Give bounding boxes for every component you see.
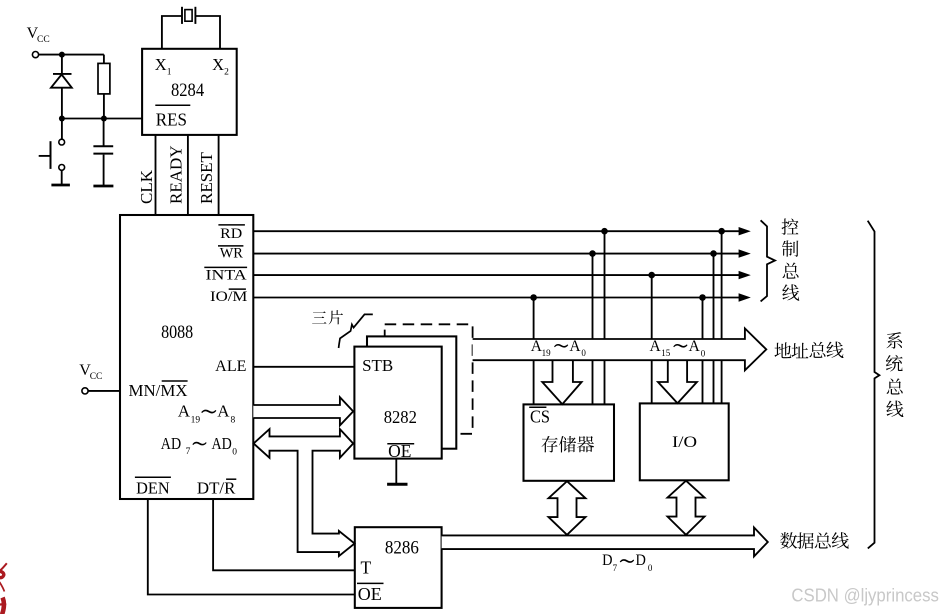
wire RD drop to I/O xyxy=(721,231,723,403)
pin label OE 8282 (overline) xyxy=(387,441,414,461)
wire RD drop to memory xyxy=(604,231,606,404)
pin label INTA (overline) xyxy=(204,267,247,283)
svg-text:ALE: ALE xyxy=(215,358,246,375)
wire WR drop to I/O xyxy=(713,254,715,404)
svg-text:X: X xyxy=(155,55,167,74)
bus arrow AD7-AD0 (8088/8282/8286) xyxy=(254,429,355,556)
bus arrow io-data (double) xyxy=(668,481,705,535)
svg-text:CC: CC xyxy=(37,35,50,45)
svg-text:READY: READY xyxy=(167,145,186,204)
clock generator U2 8284 xyxy=(142,49,237,135)
svg-text:MN/MX: MN/MX xyxy=(129,381,188,400)
node VCC terminal (reset circuit) xyxy=(32,52,38,58)
svg-text:T: T xyxy=(361,558,372,578)
svg-text:8088: 8088 xyxy=(161,323,193,343)
svg-text:WR: WR xyxy=(220,246,243,262)
wire RD line xyxy=(253,230,740,232)
pin label WR (overline) xyxy=(218,246,243,262)
memory block xyxy=(524,404,615,480)
svg-text:D: D xyxy=(636,552,646,569)
node junction IOM-I/O xyxy=(699,294,706,301)
ground (capacitor) xyxy=(93,185,113,188)
wire WR drop to memory xyxy=(592,254,594,405)
svg-text:0: 0 xyxy=(581,348,586,358)
wire crystal left xyxy=(162,16,182,49)
wire DEN to 8286 OE xyxy=(148,499,355,595)
svg-text:2: 2 xyxy=(224,67,229,77)
arrowhead INTA xyxy=(739,271,751,279)
wire crystal right xyxy=(195,16,220,49)
label memory 存储器 xyxy=(542,436,595,453)
label VCC (MN/MX) xyxy=(79,362,102,382)
crystal Y1 xyxy=(182,7,195,24)
node junction INTA-I/O xyxy=(648,272,655,279)
node junction at diode top xyxy=(59,52,65,58)
label VCC (reset) xyxy=(27,25,50,45)
svg-text:AD: AD xyxy=(161,434,181,453)
svg-text:RD: RD xyxy=(220,226,242,242)
arrowhead RD xyxy=(739,227,751,235)
cpu U1 8088 xyxy=(120,215,253,499)
bus arrow address-to-memory xyxy=(542,360,581,404)
svg-text:19: 19 xyxy=(542,348,552,358)
svg-text:RES: RES xyxy=(156,110,187,130)
svg-text:0: 0 xyxy=(232,447,237,457)
wire pin READY 8284-8088 xyxy=(187,135,189,215)
wire INTA line xyxy=(253,274,740,276)
wire IOM drop to I/O xyxy=(702,298,704,404)
pin label IO/M (overline on M) xyxy=(210,289,247,305)
node junction reset-left xyxy=(59,116,65,122)
wire reset node to 8284 RES xyxy=(62,118,142,120)
svg-text:AD: AD xyxy=(212,434,232,453)
latch U3 8282 xyxy=(354,347,441,459)
wire WR line xyxy=(253,253,740,255)
arrowhead WR xyxy=(739,249,751,257)
svg-text:DEN: DEN xyxy=(136,479,170,498)
svg-text:7: 7 xyxy=(186,447,191,457)
label A19-A0 xyxy=(531,338,587,358)
svg-text:D: D xyxy=(602,552,612,569)
address bus (hollow arrow) xyxy=(473,328,767,370)
wire ALE to STB xyxy=(253,366,354,368)
svg-text:CC: CC xyxy=(90,372,103,382)
resistor R1 xyxy=(98,63,110,94)
label A15-A0 xyxy=(650,338,706,358)
svg-text:IO/M: IO/M xyxy=(210,289,247,305)
svg-text:A: A xyxy=(217,402,230,421)
svg-text:STB: STB xyxy=(362,356,393,375)
svg-text:8: 8 xyxy=(231,415,236,425)
wire button to ground xyxy=(61,170,63,184)
svg-text:CSDN @ljyprincess: CSDN @ljyprincess xyxy=(791,586,939,606)
svg-text:8284: 8284 xyxy=(171,81,204,101)
label address bus 地址总线 xyxy=(774,342,843,359)
pin label DEN (overline) xyxy=(135,477,171,497)
pin label AD7-AD0 xyxy=(161,434,238,458)
wire diode anode xyxy=(61,55,63,74)
wire VCC to MN/MX pin xyxy=(88,390,120,392)
wire capacitor to ground xyxy=(103,155,105,186)
svg-text:A: A xyxy=(178,402,191,421)
svg-text:A: A xyxy=(569,338,581,355)
wire to push-button xyxy=(61,119,63,140)
svg-text:0: 0 xyxy=(648,563,653,573)
svg-text:CLK: CLK xyxy=(137,169,156,204)
svg-text:INTA: INTA xyxy=(206,267,247,283)
brace system bus xyxy=(868,221,880,549)
svg-text:A: A xyxy=(650,338,662,355)
label control bus 控制总线 xyxy=(782,218,800,300)
node junction RD-memory xyxy=(601,228,608,235)
svg-text:8282: 8282 xyxy=(384,407,417,427)
svg-text:8286: 8286 xyxy=(385,538,419,558)
label 三片 xyxy=(312,310,343,324)
svg-text:DT/R: DT/R xyxy=(197,479,236,498)
arrowhead IO/M xyxy=(739,293,751,301)
data bus (hollow arrow) xyxy=(442,528,768,557)
watermark xyxy=(791,586,939,606)
wire pin RESET 8284-8088 xyxy=(218,135,220,215)
label data bus 数据总线 xyxy=(780,532,849,549)
wire INTA drop to I/O xyxy=(651,275,653,403)
ground (button) xyxy=(51,184,70,187)
latch middle 8282 xyxy=(367,336,456,448)
pin label DT/R (overline on R) xyxy=(197,479,236,498)
bus arrow address-to-io xyxy=(658,360,697,403)
wire resistor top xyxy=(103,55,105,64)
svg-text:CS: CS xyxy=(530,407,550,427)
node junction WR-memory xyxy=(589,250,596,257)
label D7-D0 xyxy=(602,552,653,573)
svg-text:OE: OE xyxy=(358,584,382,604)
node junction reset-right xyxy=(101,116,107,122)
bus arrow A19-A8 (8088 to 8282) xyxy=(253,397,353,425)
svg-text:7: 7 xyxy=(613,563,618,573)
i/o block xyxy=(640,403,729,480)
wire DT/R to 8286 T xyxy=(213,499,355,570)
callout squiggle (three chips) xyxy=(339,314,373,348)
node junction IOM-CS xyxy=(530,294,537,301)
label system bus 系统总线 xyxy=(886,332,904,417)
node junction WR-I/O xyxy=(710,250,717,257)
wire node to capacitor xyxy=(103,119,105,147)
svg-text:1: 1 xyxy=(167,67,172,77)
pin label A19-A8 xyxy=(178,402,236,426)
push-button S1 xyxy=(39,139,65,170)
node VCC terminal (MN/MX) xyxy=(82,388,88,394)
latch stack dashed third 8282 xyxy=(385,324,473,434)
svg-text:15: 15 xyxy=(661,348,671,358)
wire VCC rail top xyxy=(39,54,104,56)
wire pin CLK 8284-8088 xyxy=(155,135,157,215)
capacitor C1 xyxy=(93,146,113,153)
svg-text:A: A xyxy=(689,338,701,355)
wire resistor bottom xyxy=(103,94,105,119)
svg-text:I/O: I/O xyxy=(672,434,697,451)
brace control bus xyxy=(761,220,775,301)
wire IO/M line xyxy=(253,297,740,299)
svg-text:0: 0 xyxy=(701,348,706,358)
wire 8282 OE to ground xyxy=(395,459,397,484)
wire IOM drop to memory CS xyxy=(533,298,535,405)
pin label CS (overline) xyxy=(529,407,550,427)
svg-text:X: X xyxy=(212,55,224,74)
bus arrow memory-data (double) xyxy=(549,481,586,535)
ground (8282 OE) xyxy=(387,483,407,486)
wire diode to node xyxy=(61,88,63,119)
pin label X2 xyxy=(212,55,229,77)
diode D1 xyxy=(51,74,72,88)
pin label MN/MX (overline on MX) xyxy=(129,381,188,400)
transceiver U4 8286 xyxy=(355,527,442,608)
pin label OE 8286 (overline) xyxy=(357,583,384,604)
red stamp fragment (left edge) xyxy=(0,563,7,614)
pin label RD (overline) xyxy=(218,225,245,242)
pin label X1 xyxy=(155,55,172,77)
node junction RD-I/O xyxy=(718,228,725,235)
pin label RES (overline) xyxy=(155,105,190,129)
svg-text:RESET: RESET xyxy=(197,151,216,204)
svg-text:19: 19 xyxy=(191,415,201,425)
